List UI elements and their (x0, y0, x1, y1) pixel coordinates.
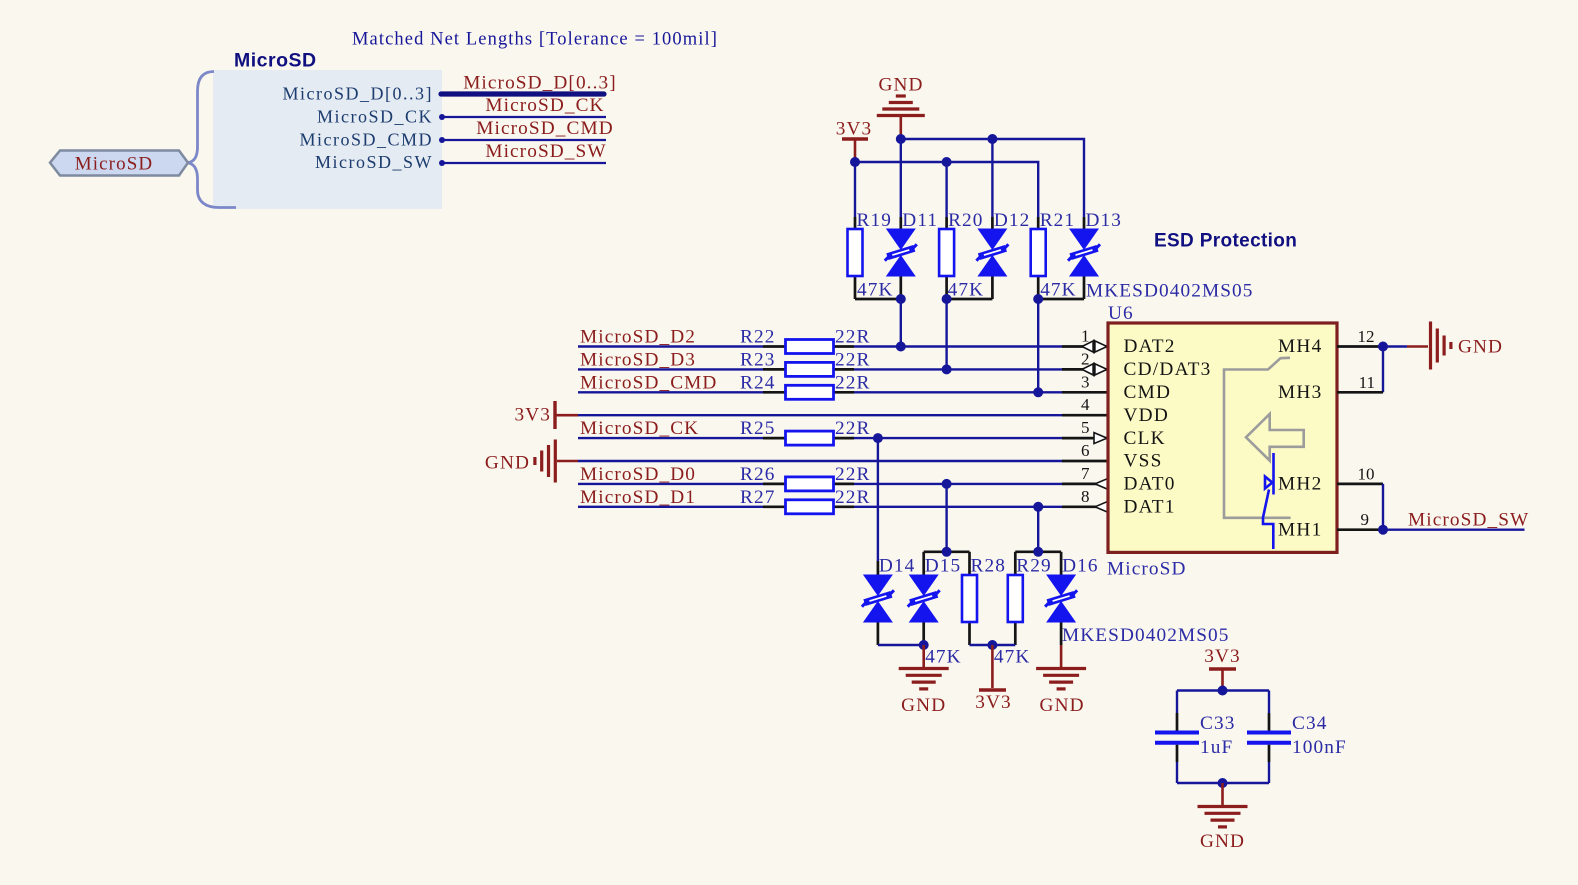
svg-text:DAT1: DAT1 (1124, 497, 1176, 518)
svg-text:D15: D15 (925, 556, 962, 577)
junction (942, 547, 952, 557)
power GND right (1429, 322, 1432, 370)
power 3V3 bottom (979, 688, 1006, 691)
pin arrow bidirectional (1082, 341, 1107, 353)
pin 12 lead (1337, 345, 1383, 348)
harness brace (188, 72, 237, 208)
resistor R19 (854, 217, 857, 229)
resistor R20 (945, 217, 948, 229)
svg-text:MicroSD_CK: MicroSD_CK (485, 95, 604, 116)
svg-text:DAT2: DAT2 (1124, 336, 1176, 357)
junction (896, 134, 906, 144)
svg-text:MicroSD_D3: MicroSD_D3 (580, 349, 696, 370)
svg-text:MH3: MH3 (1278, 382, 1322, 403)
pin lead (1062, 437, 1108, 440)
svg-text:VDD: VDD (1124, 405, 1170, 426)
resistor R28 (968, 552, 971, 575)
wire pair3 to CMD (1037, 299, 1039, 392)
IC U6 MKESD0402MS05 (1108, 323, 1337, 552)
wire MicroSD_CK left (578, 437, 763, 439)
pin arrow output (1095, 478, 1108, 489)
resistor R26 (763, 483, 786, 486)
svg-text:GND: GND (485, 453, 530, 474)
svg-text:47K: 47K (1040, 280, 1077, 301)
svg-text:MicroSD_CMD: MicroSD_CMD (580, 372, 717, 393)
pin lead (1062, 345, 1108, 348)
svg-text:CD/DAT3: CD/DAT3 (1124, 359, 1212, 380)
junction (873, 433, 883, 443)
svg-text:MKESD0402MS05: MKESD0402MS05 (1086, 281, 1254, 302)
svg-text:MicroSD: MicroSD (1107, 559, 1186, 580)
resistor R24 (763, 391, 786, 394)
wire 3V3 stem (854, 141, 857, 164)
svg-text:R24: R24 (740, 372, 775, 393)
svg-text:MicroSD_CMD: MicroSD_CMD (476, 118, 613, 139)
junction (896, 294, 906, 304)
wire D16 GND stem (1060, 645, 1063, 668)
svg-text:22R: 22R (835, 349, 870, 370)
resistor R25 (763, 437, 786, 440)
wire power row (578, 460, 1062, 462)
svg-text:5: 5 (1081, 418, 1090, 437)
wire pin12 to GND (1383, 345, 1407, 347)
power GND caps (1198, 805, 1248, 808)
pin lead (1062, 391, 1108, 394)
pin lead (1062, 414, 1108, 417)
wire pair3 bottom bar (1038, 298, 1084, 301)
wire 3V3 stem bottom (991, 645, 994, 688)
svg-text:2: 2 (1081, 349, 1090, 368)
svg-text:R20: R20 (948, 210, 983, 231)
svg-text:MicroSD_SW: MicroSD_SW (485, 141, 606, 162)
wire MicroSD_CMD right (854, 391, 1062, 393)
svg-text:10: 10 (1358, 464, 1375, 483)
svg-text:R28: R28 (971, 556, 1006, 577)
pin lead (1062, 483, 1108, 486)
svg-text:MicroSD: MicroSD (75, 154, 153, 175)
svg-text:U6: U6 (1108, 303, 1134, 324)
wire GND stem (899, 117, 902, 140)
junction (987, 134, 997, 144)
svg-text:DAT0: DAT0 (1124, 474, 1176, 495)
pin 9 lead (1337, 528, 1383, 531)
wire MicroSD_CMD left (578, 391, 763, 393)
wire pair4 top bar (924, 550, 970, 553)
svg-text:11: 11 (1359, 373, 1375, 392)
svg-text:22R: 22R (835, 327, 870, 348)
svg-text:9: 9 (1361, 510, 1370, 529)
svg-text:R23: R23 (740, 349, 775, 370)
wire 3V3 to VDD (556, 414, 578, 417)
svg-text:4: 4 (1081, 395, 1090, 414)
svg-text:GND: GND (878, 75, 923, 96)
wire MicroSD_D0 right (854, 483, 1062, 485)
pin lead (1062, 505, 1108, 508)
junction (942, 294, 952, 304)
svg-text:R25: R25 (740, 418, 775, 439)
svg-text:6: 6 (1081, 441, 1090, 460)
capacitor C33 (1176, 691, 1178, 714)
wire pin12 to pin11 (1382, 347, 1384, 393)
pin 11 lead (1337, 391, 1383, 394)
wire to D12 (991, 139, 993, 217)
diode D14 (877, 622, 880, 645)
svg-text:D16: D16 (1062, 556, 1099, 577)
svg-text:GND: GND (1458, 336, 1503, 357)
svg-text:3V3: 3V3 (1204, 646, 1241, 667)
svg-text:MicroSD_D1: MicroSD_D1 (580, 487, 696, 508)
wire MicroSD_D1 right (854, 506, 1062, 508)
svg-text:GND: GND (1040, 695, 1085, 716)
junction (1378, 342, 1388, 352)
svg-text:47K: 47K (994, 647, 1031, 668)
wire pin10 to pin9 (1382, 484, 1384, 530)
svg-text:R19: R19 (857, 210, 892, 231)
svg-text:CMD: CMD (1124, 382, 1172, 403)
svg-text:GND: GND (901, 695, 946, 716)
svg-text:D12: D12 (994, 210, 1031, 231)
junction (942, 364, 952, 374)
svg-text:100nF: 100nF (1292, 737, 1347, 758)
pin arrow input CLK (1094, 433, 1107, 444)
pin lead (1062, 368, 1108, 371)
wire MicroSD_D3 left (578, 368, 763, 370)
junction (942, 157, 952, 167)
capacitor C34 (1268, 691, 1270, 714)
svg-text:47K: 47K (857, 280, 894, 301)
wire MicroSD_D2 right (854, 345, 1062, 347)
svg-text:MicroSD_D[0..3]: MicroSD_D[0..3] (283, 84, 434, 104)
wire pair2 to DAT3 (945, 299, 947, 369)
svg-text:R22: R22 (740, 327, 775, 348)
svg-text:C33: C33 (1200, 713, 1235, 734)
svg-text:MH4: MH4 (1278, 336, 1322, 357)
wire DAT1 to pair5 (1037, 507, 1039, 552)
wire R28-R29 bottom bar (970, 644, 1016, 646)
diode D11 (899, 217, 902, 229)
svg-text:Matched Net Lengths [Tolerance: Matched Net Lengths [Tolerance = 100mil] (352, 30, 718, 50)
diode D12 (991, 217, 994, 229)
junction (1378, 525, 1388, 535)
pin lead (1062, 460, 1108, 463)
wire pair2 bottom bar (947, 298, 993, 301)
svg-text:MicroSD: MicroSD (234, 50, 317, 72)
wire 3V3 stem caps (1221, 671, 1224, 691)
wire pair1 to DAT2 (900, 299, 902, 347)
wire D14-D15 bottom bar (878, 644, 924, 646)
junction (896, 342, 906, 352)
diode D16 (1060, 552, 1063, 575)
wire MicroSD_CMD (442, 139, 606, 141)
port MicroSD (50, 151, 188, 176)
svg-text:47K: 47K (925, 647, 962, 668)
svg-text:7: 7 (1081, 464, 1090, 483)
wire GND stem bottom1 (922, 645, 925, 668)
svg-text:CLK: CLK (1124, 428, 1166, 449)
harness block MicroSD (213, 70, 442, 209)
symbol switch (1263, 453, 1274, 549)
diode D15 (922, 552, 925, 575)
svg-text:1: 1 (1081, 327, 1090, 346)
pin arrow output (1095, 501, 1108, 512)
wire GND rail (901, 139, 1084, 217)
svg-text:3: 3 (1081, 372, 1090, 391)
svg-text:47K: 47K (948, 280, 985, 301)
wire CLK to D14 (877, 438, 879, 561)
wire DAT0 to pair4 (945, 484, 947, 552)
svg-text:22R: 22R (835, 418, 870, 439)
resistor R27 (763, 505, 786, 508)
junction (987, 640, 997, 650)
junction (1218, 778, 1228, 788)
wire MicroSD_D3 right (854, 368, 1062, 370)
power GND bottom2 (1036, 667, 1086, 670)
junction (942, 479, 952, 489)
wire pair5 top bar (1015, 550, 1061, 553)
svg-text:8: 8 (1081, 487, 1090, 506)
svg-text:MicroSD_D2: MicroSD_D2 (580, 327, 696, 348)
svg-text:MH2: MH2 (1278, 474, 1322, 495)
wire cap bottom rail (1177, 782, 1269, 784)
svg-text:C34: C34 (1292, 713, 1327, 734)
diode D13 (1083, 217, 1086, 229)
wire MicroSD_SW (442, 162, 606, 164)
wire cap top rail (1177, 689, 1269, 691)
wire to R19 (854, 162, 856, 217)
resistor R23 (763, 368, 786, 371)
svg-text:D13: D13 (1086, 210, 1123, 231)
wire MicroSD_D1 left (578, 506, 763, 508)
svg-text:MicroSD_CK: MicroSD_CK (580, 418, 699, 439)
resistor R21 (1037, 217, 1040, 229)
power GND bottom1 (899, 667, 949, 670)
svg-text:MH1: MH1 (1278, 519, 1322, 540)
wire to R20 (945, 162, 947, 217)
wire to D11 (900, 139, 902, 217)
pin arrow bidirectional (1082, 363, 1107, 375)
junction (850, 157, 860, 167)
symbol card outline (1224, 358, 1291, 518)
svg-text:MicroSD_D[0..3]: MicroSD_D[0..3] (463, 72, 617, 93)
svg-text:3V3: 3V3 (836, 119, 873, 140)
svg-text:1uF: 1uF (1200, 737, 1233, 758)
wire MicroSD_SW (1383, 529, 1525, 531)
wire GND stem caps (1221, 783, 1224, 806)
svg-text:VSS: VSS (1124, 451, 1163, 472)
svg-text:MicroSD_SW: MicroSD_SW (1408, 510, 1529, 531)
junction (1218, 686, 1228, 696)
svg-text:R26: R26 (740, 464, 775, 485)
svg-text:3V3: 3V3 (975, 692, 1012, 713)
wire MicroSD_CK right (854, 437, 1062, 439)
wire pair1 bottom bar (855, 298, 901, 301)
junction (1033, 547, 1043, 557)
junction (1033, 387, 1043, 397)
wire 3V3 rail (855, 162, 1038, 217)
svg-text:12: 12 (1358, 327, 1375, 346)
junction (1033, 502, 1043, 512)
svg-text:MKESD0402MS05: MKESD0402MS05 (1062, 625, 1230, 646)
junction (919, 640, 929, 650)
svg-text:MicroSD_SW: MicroSD_SW (315, 152, 433, 172)
svg-text:3V3: 3V3 (514, 405, 551, 426)
resistor R29 (1014, 552, 1017, 575)
svg-text:22R: 22R (835, 464, 870, 485)
wire MicroSD_D0 left (578, 483, 763, 485)
wire GND to VSS (557, 460, 578, 463)
wire MicroSD_CK (442, 116, 606, 118)
pin 10 lead (1337, 483, 1383, 486)
bus MicroSD_D[0..3] (441, 91, 604, 96)
svg-text:MicroSD_D0: MicroSD_D0 (580, 464, 696, 485)
svg-text:MicroSD_CMD: MicroSD_CMD (299, 129, 433, 149)
svg-text:R27: R27 (740, 487, 775, 508)
resistor R22 (763, 345, 786, 348)
wire MicroSD_D2 left (578, 345, 763, 347)
junction (1033, 294, 1043, 304)
svg-text:ESD Protection: ESD Protection (1154, 231, 1297, 252)
svg-text:D11: D11 (902, 210, 938, 231)
svg-text:22R: 22R (835, 487, 870, 508)
svg-text:22R: 22R (835, 372, 870, 393)
svg-text:R21: R21 (1040, 210, 1075, 231)
svg-text:D14: D14 (879, 556, 916, 577)
svg-text:GND: GND (1200, 831, 1245, 852)
svg-text:MicroSD_CK: MicroSD_CK (317, 106, 433, 126)
svg-text:R29: R29 (1016, 556, 1051, 577)
symbol arrow (1246, 414, 1304, 461)
wire power row (578, 414, 1062, 416)
